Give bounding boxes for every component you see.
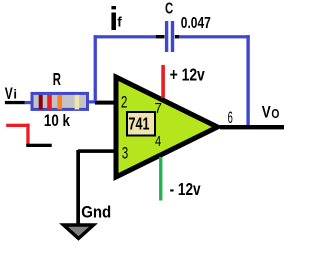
wire: feedback top horizontal right of capacitor (blue) [178, 35, 250, 38]
ground [64, 225, 94, 239]
wire: resistor left lead (blue) [25, 101, 34, 104]
svg-text:Gnd: Gnd [81, 203, 111, 222]
svg-text:2: 2 [121, 93, 128, 111]
wire: node A to op-amp pin 2 (inverting input) [95, 101, 117, 105]
wire: output pin 6 to VO [220, 125, 284, 129]
svg-text:V: V [5, 85, 13, 103]
svg-text:0.047: 0.047 [181, 15, 211, 32]
label Vi (input voltage) [5, 85, 17, 103]
label 741 [127, 112, 155, 136]
wire: -12v supply (green) [159, 157, 162, 201]
wire: +12v supply (red) [161, 65, 165, 98]
op-amp U1 (741) [116, 77, 218, 177]
label VO (output voltage) [262, 104, 280, 122]
wire: feedback top horizontal left of capacitor (blue) [94, 35, 157, 38]
wire: pin 3 to ground vertical [76, 150, 80, 225]
svg-text:+ 12v: + 12v [170, 65, 206, 85]
svg-text:i: i [13, 87, 17, 102]
svg-text:C: C [165, 1, 173, 18]
svg-text:4: 4 [155, 133, 161, 150]
svg-text:3: 3 [122, 144, 129, 162]
wire: black stub left of capacitor [156, 35, 165, 38]
wire: feedback right vertical to output (blue) [246, 35, 249, 127]
capacitor C [165, 21, 174, 52]
resistor R body [32, 93, 88, 109]
svg-text:7: 7 [155, 100, 162, 117]
wire: resistor right lead (blue) [88, 100, 97, 103]
svg-text:- 12v: - 12v [170, 179, 201, 199]
svg-text:6: 6 [228, 109, 233, 127]
svg-text:f: f [117, 14, 122, 29]
svg-text:10 k: 10 k [44, 111, 71, 130]
wire: Vi input to resistor R [5, 101, 25, 104]
input step waveform symbol [6, 124, 51, 147]
svg-text:O: O [271, 106, 279, 121]
svg-text:V: V [262, 104, 271, 122]
wire: black stub right of capacitor [175, 35, 179, 38]
label If (feedback current) [109, 0, 122, 37]
svg-text:R: R [53, 69, 62, 89]
wire: feedback left vertical (blue) [94, 35, 97, 101]
svg-text:741: 741 [129, 114, 150, 134]
wire: op-amp pin 3 (non-inverting input) horizontal [78, 149, 117, 153]
